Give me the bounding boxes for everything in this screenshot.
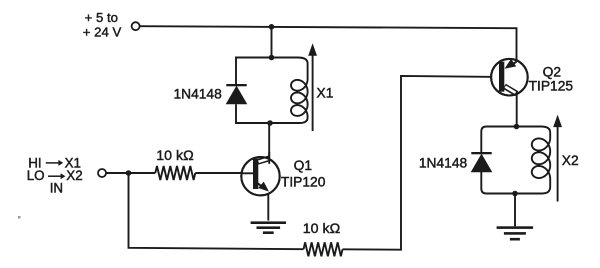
- svg-text:X1: X1: [317, 86, 334, 101]
- svg-text:1N4148: 1N4148: [419, 155, 468, 170]
- svg-text:TIP125: TIP125: [529, 79, 574, 94]
- svg-text:Q1: Q1: [294, 158, 312, 173]
- svg-text:Q2: Q2: [543, 65, 561, 80]
- svg-text:1N4148: 1N4148: [173, 87, 222, 102]
- svg-text:IN: IN: [50, 180, 63, 195]
- svg-text:+ 5 to: + 5 to: [85, 10, 118, 25]
- svg-text:+ 24 V: + 24 V: [83, 24, 122, 39]
- svg-text:LO: LO: [27, 168, 45, 183]
- svg-text:10 kΩ: 10 kΩ: [303, 221, 340, 237]
- svg-text:X2: X2: [562, 153, 579, 168]
- svg-text:10 kΩ: 10 kΩ: [156, 148, 193, 164]
- svg-text:TIP120: TIP120: [281, 174, 326, 189]
- svg-text:X2: X2: [66, 168, 82, 183]
